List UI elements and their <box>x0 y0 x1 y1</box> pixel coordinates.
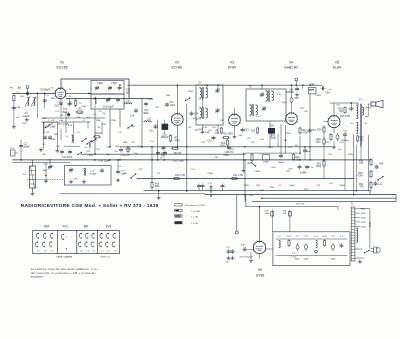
capacitor C21 <box>149 124 157 132</box>
wire V2 top <box>176 84 178 113</box>
svg-text:L1A: L1A <box>22 122 26 125</box>
value labels scatter <box>16 89 368 191</box>
volume pot P2 <box>248 153 257 167</box>
capacitor C43 <box>308 128 317 132</box>
junction C2 <box>36 90 50 95</box>
switch arrows mid y140 <box>81 138 96 142</box>
svg-text:470: 470 <box>287 236 291 238</box>
svg-text:C2 680pF: C2 680pF <box>40 90 51 92</box>
wire speaker loop <box>365 104 371 117</box>
svg-text:4n7: 4n7 <box>329 183 333 185</box>
svg-text:AP: AP <box>51 165 54 168</box>
svg-text:T.1: T.1 <box>350 204 354 206</box>
wire V3 top <box>234 108 236 114</box>
taps T1 <box>355 209 360 227</box>
wire V6 heater <box>259 254 261 258</box>
svg-text:47p: 47p <box>50 124 54 126</box>
switch contacts OM <box>35 233 54 252</box>
components row y168 <box>288 165 309 175</box>
svg-text:C41: C41 <box>288 147 293 149</box>
elcap CF3 <box>330 236 336 261</box>
svg-text:bassata).: bassata). <box>31 275 45 279</box>
svg-text:22k: 22k <box>225 262 229 264</box>
svg-text:C32: C32 <box>220 120 225 122</box>
IF transformer T5 upper <box>260 90 282 103</box>
svg-text:R9: R9 <box>216 131 220 133</box>
label L1 <box>23 174 27 176</box>
svg-text:C49A: C49A <box>315 94 321 97</box>
svg-text:» a 1W: » a 1W <box>191 216 199 218</box>
svg-text:C66: C66 <box>249 195 254 197</box>
svg-text:C19 470: C19 470 <box>121 155 130 157</box>
svg-text:32μF: 32μF <box>294 259 300 261</box>
svg-text:C47 5k: C47 5k <box>307 167 315 169</box>
svg-text:150: 150 <box>102 113 106 115</box>
box switch sections <box>33 231 120 254</box>
capacitor V6 in <box>241 245 273 252</box>
tube V5 <box>328 115 340 128</box>
label MF <box>84 224 89 228</box>
svg-text:C51: C51 <box>336 105 341 107</box>
wire x300 down <box>299 136 301 154</box>
svg-text:R4: R4 <box>98 127 102 129</box>
svg-text:C26: C26 <box>162 134 167 136</box>
svg-text:C39: C39 <box>214 157 219 159</box>
IF transformer T4 lower <box>200 107 220 120</box>
transformer T2 secondary <box>362 107 363 115</box>
svg-text:C28: C28 <box>138 169 143 171</box>
svg-text:TCM 130pF: TCM 130pF <box>172 160 185 162</box>
svg-text:P.2: P.2 <box>279 185 283 187</box>
wire main bus <box>13 159 371 161</box>
svg-text:C.34: C.34 <box>43 164 48 166</box>
svg-text:4,7pF: 4,7pF <box>281 102 287 104</box>
svg-text:180pF: 180pF <box>278 162 285 164</box>
filter rail bottom <box>276 255 347 257</box>
wire x371 bottom <box>370 187 372 191</box>
svg-text:C16: C16 <box>45 132 50 134</box>
transformer T2 primary <box>357 105 358 133</box>
svg-text:4,7pF: 4,7pF <box>270 138 276 140</box>
wire V2 bottom <box>176 125 178 147</box>
svg-text:C9: C9 <box>79 103 83 105</box>
svg-text:C31: C31 <box>207 141 212 143</box>
label SP18 <box>239 257 253 259</box>
svg-text:R25: R25 <box>325 142 330 144</box>
fuse F2 lamp <box>282 210 291 232</box>
svg-text:9-18pF: 9-18pF <box>90 173 98 175</box>
svg-text:7 + 19: 7 + 19 <box>48 120 55 122</box>
svg-text:R6 470: R6 470 <box>174 153 182 155</box>
label V5 EL84 <box>333 61 341 70</box>
ground V6 <box>249 252 252 262</box>
svg-text:R11 1MΩ: R11 1MΩ <box>223 134 233 136</box>
box capacitor C38 <box>268 126 275 138</box>
svg-text:C50: C50 <box>325 93 330 95</box>
svg-text:C29: C29 <box>156 173 161 175</box>
svg-text:TV2: TV2 <box>106 224 112 228</box>
wire T1 tap right <box>360 209 370 248</box>
svg-text:140V.: 140V. <box>361 218 367 220</box>
svg-text:C28A: C28A <box>125 148 131 151</box>
svg-text:R21: R21 <box>317 164 322 166</box>
svg-text:L.10: L.10 <box>90 171 95 173</box>
svg-text:50μF: 50μF <box>330 259 336 261</box>
svg-text:C49: C49 <box>328 154 333 156</box>
junction dots buses <box>94 146 301 161</box>
svg-text:R2: R2 <box>79 109 83 111</box>
wire V1 top rail <box>61 79 129 99</box>
box capacitor C26 <box>162 120 169 133</box>
svg-text:1 2: 1 2 <box>51 251 55 253</box>
choke L21 <box>314 236 318 248</box>
svg-text:R8A: R8A <box>205 131 210 134</box>
inductor TAF <box>308 83 316 94</box>
tube V4 <box>286 112 298 124</box>
resistor R2 <box>76 109 84 114</box>
svg-text:10pF: 10pF <box>170 105 176 107</box>
svg-text:R5B: R5B <box>166 95 171 97</box>
svg-text:1 2: 1 2 <box>101 251 105 253</box>
capacitor Cx left <box>12 106 15 110</box>
wire bottom line 1 <box>144 190 370 192</box>
svg-text:5000pF: 5000pF <box>341 140 349 142</box>
svg-text:C64: C64 <box>379 164 384 166</box>
svg-text:L.2: L.2 <box>35 98 39 100</box>
svg-text:P.U.: P.U. <box>11 148 15 150</box>
svg-text:R.5: R.5 <box>114 151 118 153</box>
resistor R7 <box>170 134 181 142</box>
wire IF AGC line <box>81 153 245 155</box>
wire x324 <box>323 133 325 178</box>
junction x186 <box>186 190 188 192</box>
svg-text:160V.: 160V. <box>361 213 367 215</box>
svg-text:C53A: C53A <box>347 153 353 156</box>
svg-text:L.8: L.8 <box>77 132 81 134</box>
svg-text:C22A: C22A <box>147 98 153 101</box>
coil L12 <box>144 119 152 123</box>
wire V6 plate up <box>259 206 261 241</box>
svg-text:C.4: C.4 <box>226 247 230 249</box>
component mid bottom <box>210 185 212 197</box>
svg-text:C3: C3 <box>25 113 29 115</box>
wire x142 drop <box>141 99 143 148</box>
svg-text:L13: L13 <box>191 169 195 171</box>
svg-text:V4: V4 <box>289 61 293 65</box>
wire V5 plate top <box>330 103 358 116</box>
svg-text:C35: C35 <box>277 94 282 96</box>
svg-text:1M: 1M <box>295 145 298 147</box>
svg-text:C46A: C46A <box>305 150 311 153</box>
svg-text:5Ω: 5Ω <box>361 140 364 142</box>
wire gnd line left <box>60 193 205 195</box>
choke L20 <box>277 236 281 248</box>
svg-text:L5: L5 <box>94 107 97 109</box>
wire heater line <box>137 178 354 180</box>
svg-text:C24A: C24A <box>187 90 193 93</box>
svg-text:CAMB. GAMMA: CAMB. GAMMA <box>56 256 72 259</box>
resistor heater 2 <box>231 175 244 180</box>
svg-text:FM→ ←AM: FM→ ←AM <box>10 87 22 90</box>
resistor R0 left <box>13 94 15 107</box>
box MF2 T5 <box>246 87 286 122</box>
resistor R13 <box>251 127 259 135</box>
svg-text:C20: C20 <box>56 146 61 148</box>
wire left bus drop <box>12 93 14 159</box>
label 6,8pF 7,5pF <box>97 83 117 85</box>
resistor R10 <box>221 139 229 147</box>
svg-text:R30: R30 <box>358 173 363 175</box>
svg-text:1 2: 1 2 <box>92 251 96 253</box>
svg-text:R22: R22 <box>300 108 305 110</box>
tube V1 <box>55 87 66 98</box>
svg-text:R.35: R.35 <box>241 245 246 247</box>
svg-text:C.7: C.7 <box>296 236 300 238</box>
trimmer C34 <box>43 159 53 172</box>
ground V4 <box>242 153 245 172</box>
svg-text:C55: C55 <box>343 131 348 133</box>
switch contacts TV1 <box>61 234 68 249</box>
svg-text:100 4,7W: 100 4,7W <box>175 175 186 177</box>
capacitor left power <box>225 247 234 264</box>
svg-text:L.1: L.1 <box>23 174 27 176</box>
ground left gang <box>44 163 47 183</box>
svg-text:C.47: C.47 <box>208 183 213 185</box>
svg-text:C20A: C20A <box>110 119 116 122</box>
resistor RG <box>93 133 104 138</box>
svg-text:C16: C16 <box>130 116 135 118</box>
antenna L1 ferrite <box>30 160 36 192</box>
capacitor C2 dark <box>26 91 29 96</box>
label C17b <box>126 90 131 95</box>
svg-text:1 2: 1 2 <box>107 251 111 253</box>
svg-text:100pF: 100pF <box>289 185 296 187</box>
svg-text:ECH81: ECH81 <box>172 65 183 69</box>
T2 core <box>360 104 361 146</box>
junction C53 <box>340 102 353 118</box>
elcap CF2 <box>303 236 309 261</box>
trimmer C13 <box>106 98 110 102</box>
ground C3 <box>25 118 28 122</box>
svg-text:C63: C63 <box>316 185 321 187</box>
svg-text:30pF: 30pF <box>51 98 56 100</box>
capacitor C50 <box>321 87 330 95</box>
svg-text:RADIORICEVITORE CGE Mod. « Sol: RADIORICEVITORE CGE Mod. « Soller » RV 3… <box>21 203 159 209</box>
wire T4 out <box>201 125 218 134</box>
AM box trimmer <box>69 168 73 183</box>
svg-text:2-20pF: 2-20pF <box>22 116 30 118</box>
coil L7 osc <box>65 134 73 143</box>
svg-text:V5: V5 <box>335 61 339 65</box>
oscillator section lines <box>42 118 105 122</box>
svg-text:R.25: R.25 <box>322 236 327 238</box>
svg-text:C22: C22 <box>86 151 91 153</box>
right chain R20 <box>316 138 326 146</box>
svg-text:1MΩ: 1MΩ <box>316 142 321 144</box>
wire to T1 <box>337 207 339 210</box>
filter rail top <box>276 238 347 240</box>
switch voltage sel <box>369 222 370 226</box>
wire x285 down2 <box>285 142 287 154</box>
box C45A <box>263 155 270 164</box>
label V4 EABC80 <box>284 61 297 70</box>
capacitor C10f <box>62 102 71 114</box>
coil L10 <box>125 101 132 105</box>
resistor R9 <box>215 127 222 136</box>
svg-text:R3A: R3A <box>96 119 101 122</box>
svg-text:V1: V1 <box>60 61 64 65</box>
fuse F1 <box>264 210 273 232</box>
svg-text:T.4: T.4 <box>198 83 202 85</box>
resistor R1 <box>70 99 77 107</box>
svg-text:L.4: L.4 <box>314 236 318 238</box>
wire T4 links <box>203 84 208 108</box>
svg-text:470: 470 <box>161 156 166 158</box>
switch contacts TV2 <box>99 233 117 252</box>
label power <box>296 203 305 205</box>
label C13 <box>103 107 114 109</box>
svg-text:lais raccordo, in posizione: lais raccordo, in posizione « FM » (cors… <box>31 271 96 275</box>
ground L1 <box>31 192 34 196</box>
svg-text:Resistenza a 0,25W: Resistenza a 0,25W <box>185 204 206 207</box>
svg-text:5pF: 5pF <box>126 92 131 94</box>
svg-text:V6: V6 <box>258 268 262 272</box>
right chain R21 <box>316 160 325 169</box>
svg-text:C65: C65 <box>378 184 383 186</box>
svg-text:C41A: C41A <box>285 132 291 135</box>
svg-text:1500pF: 1500pF <box>161 137 169 139</box>
box FM lower <box>91 94 124 109</box>
svg-text:470: 470 <box>359 163 364 165</box>
testpoint A <box>26 86 29 92</box>
wire T2 top <box>357 103 359 105</box>
svg-text:» a 0,5W: » a 0,5W <box>191 211 201 213</box>
svg-text:MF: MF <box>84 224 89 228</box>
wire x186 down <box>186 104 188 191</box>
AM box coil L10 <box>84 168 97 176</box>
label TV2 <box>106 224 112 228</box>
wire stubs left <box>57 85 76 140</box>
resistor RF1 <box>287 236 291 247</box>
svg-text:1 2: 1 2 <box>80 251 84 253</box>
svg-text:C.5: C.5 <box>340 236 344 238</box>
ground V5 <box>332 142 335 149</box>
coil L5f <box>94 98 97 109</box>
capacitor C1 <box>19 140 30 161</box>
svg-text:5,6TN: 5,6TN <box>267 147 273 149</box>
capacitor C64 <box>374 164 383 169</box>
resistor R23 <box>338 106 346 114</box>
wire x120 drop <box>119 109 121 127</box>
wire T2 down <box>360 146 362 160</box>
svg-text:S1B: S1B <box>282 211 287 213</box>
capacitor C42 <box>270 130 276 140</box>
capacitor C31 <box>207 136 215 143</box>
svg-text:680: 680 <box>42 154 46 156</box>
capacitor C48 <box>286 87 299 97</box>
svg-text:OC: OC <box>42 144 46 146</box>
svg-text:10k: 10k <box>102 124 106 126</box>
svg-text:8,5: 8,5 <box>351 123 355 125</box>
svg-text:C21: C21 <box>149 131 154 133</box>
svg-text:6Ω: 6Ω <box>283 213 286 215</box>
wire AVC bus <box>120 146 332 148</box>
svg-text:8-18: 8-18 <box>68 125 73 127</box>
capacitor C55 <box>341 131 349 191</box>
svg-text:F.O.: F.O. <box>118 166 122 168</box>
svg-text:C30: C30 <box>203 127 208 129</box>
AM box ground <box>73 179 86 184</box>
switch arrow gang <box>130 173 136 178</box>
wire T5 drop <box>261 84 263 89</box>
svg-text:C11: C11 <box>144 110 149 112</box>
capacitor C17dark <box>67 112 70 117</box>
svg-text:4p7: 4p7 <box>16 117 20 119</box>
svg-text:R8: R8 <box>189 127 193 129</box>
svg-text:7: 7 <box>66 237 68 239</box>
svg-text:1 2: 1 2 <box>37 251 41 253</box>
AM box cap <box>100 168 103 172</box>
dashed gang link <box>27 179 64 181</box>
svg-text:1n: 1n <box>329 89 332 91</box>
svg-text:R28: R28 <box>359 161 364 163</box>
ground osc <box>39 148 42 152</box>
box filter <box>273 232 350 266</box>
wire below V1 <box>66 98 152 100</box>
wire B+ rail <box>128 84 322 86</box>
svg-text:1 2: 1 2 <box>114 251 118 253</box>
svg-text:220: 220 <box>230 149 234 151</box>
svg-text:1k: 1k <box>69 96 72 98</box>
resistor R6 <box>171 147 182 155</box>
svg-text:125V.: 125V. <box>361 222 367 224</box>
svg-text:C45x: C45x <box>271 167 277 169</box>
svg-text:56Ω: 56Ω <box>155 186 160 188</box>
label FM-AM <box>10 87 22 90</box>
switch arrow S1b <box>86 140 91 144</box>
svg-text:EF89: EF89 <box>228 65 236 69</box>
svg-text:R5A: R5A <box>115 145 120 148</box>
resistor R17 <box>299 127 308 135</box>
mains switch <box>364 250 370 254</box>
trimmer C9 <box>108 86 112 90</box>
svg-text:1n5: 1n5 <box>212 127 216 129</box>
svg-text:C.16: C.16 <box>73 179 78 181</box>
svg-text:C30B: C30B <box>197 129 203 131</box>
svg-text:S.INT 1-2: S.INT 1-2 <box>100 257 110 259</box>
switch arrow S5 <box>127 124 132 128</box>
svg-text:680: 680 <box>52 139 56 141</box>
trimmer C8 <box>95 86 99 90</box>
capacitor C71 <box>116 159 126 182</box>
switch arrow S6 <box>185 97 191 101</box>
box AM tuning <box>65 166 112 186</box>
label C51 <box>336 105 341 107</box>
coil L9 osc <box>85 143 91 149</box>
components y146-152 left <box>119 146 130 157</box>
svg-text:T.2: T.2 <box>359 99 363 101</box>
label OM <box>44 224 49 228</box>
label L-3 L-30 <box>291 253 296 259</box>
resistor R28 <box>359 158 372 166</box>
caps near 158-165 <box>156 151 166 160</box>
resistor RF2 <box>322 236 327 247</box>
svg-text:R20: R20 <box>316 139 321 141</box>
junction rail <box>302 84 311 88</box>
wire x95 down <box>94 109 96 155</box>
svg-text:T.5: T.5 <box>248 87 252 89</box>
wire bottom line 2 <box>205 194 396 196</box>
